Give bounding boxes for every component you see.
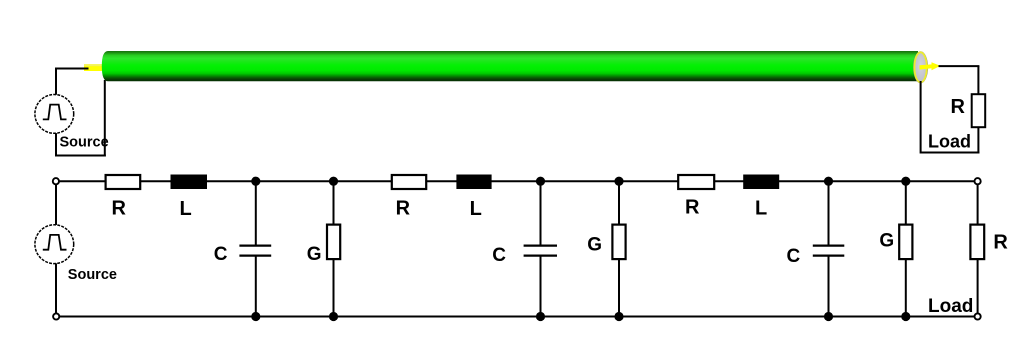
terminal: bottom-right open node — [975, 313, 981, 319]
inductor L2 (solid) — [456, 175, 491, 190]
svg-text:C: C — [787, 246, 801, 267]
node: C1 bottom junction — [251, 312, 260, 321]
wire: source top vertical — [55, 69, 57, 96]
svg-text:R: R — [951, 96, 966, 118]
wire: source branch lower vertical (bottom circuit) — [55, 263, 57, 313]
wire: load branch lower vertical (bottom circuit) — [977, 259, 979, 313]
svg-text:L: L — [755, 198, 767, 220]
svg-text:C: C — [214, 244, 228, 265]
terminal: bottom-left open node — [53, 313, 59, 319]
inductor L3 (solid) — [743, 175, 779, 190]
wire: G3 lower lead — [905, 259, 907, 317]
source V1 (top): pulse waveform — [43, 105, 67, 120]
wire: G1 lower lead — [333, 259, 335, 317]
wire: source bottom vertical — [55, 133, 57, 157]
transmission line: far-end face (gray ellipse with yellow rim) — [914, 52, 928, 83]
transmission line: inner conductor stub (yellow) — [84, 64, 104, 71]
node: G1 bottom junction — [329, 312, 338, 321]
svg-text:L: L — [180, 198, 192, 220]
wire: source branch upper vertical (bottom circuit) — [55, 185, 57, 227]
wire: C3 upper lead — [828, 181, 830, 245]
wire: G3 upper lead — [905, 181, 907, 226]
wire: source top horizontal to line input — [55, 68, 89, 70]
wire: C2 upper lead — [540, 181, 542, 245]
wire: G2 lower lead — [618, 259, 620, 317]
node: G1 top junction — [329, 177, 338, 186]
node: C2 bottom junction — [536, 312, 545, 321]
wire: C1 lower lead — [255, 256, 257, 317]
svg-text:C: C — [492, 245, 506, 266]
wire: C1 upper lead — [255, 181, 257, 245]
capacitor C2 plates — [524, 245, 557, 247]
terminal: top-right open node — [975, 178, 981, 184]
resistor R3 (series) — [678, 175, 714, 189]
wire: C3 lower lead — [828, 256, 830, 317]
svg-text:Source: Source — [60, 134, 109, 150]
conductance G2 (resistor box) — [612, 225, 625, 260]
inductor L1 (solid) — [171, 175, 208, 190]
node: C3 top junction — [824, 177, 833, 186]
transmission line: coax cable body (green cylinder) — [102, 51, 918, 81]
load resistor R (top) — [972, 94, 986, 127]
node: G3 top junction — [901, 177, 910, 186]
svg-text:Load: Load — [928, 296, 973, 317]
terminal: top-left open node — [53, 178, 59, 184]
node: C3 bottom junction — [824, 312, 833, 321]
svg-text:R: R — [685, 197, 700, 219]
resistor R1 (series) — [106, 175, 141, 189]
wire: load branch upper vertical (bottom circuit) — [977, 185, 979, 227]
wire: G1 upper lead — [333, 181, 335, 226]
capacitor C1 plates — [239, 245, 271, 247]
wire: shield return vertical at line input — [104, 80, 106, 157]
source V2 (bottom): circle — [35, 225, 74, 264]
svg-text:R: R — [993, 232, 1008, 254]
wire: C2 lower lead — [540, 256, 542, 317]
svg-text:L: L — [470, 198, 482, 220]
wire: bottom rail — [59, 316, 975, 318]
wire: top rail — [59, 180, 975, 182]
conductance G1 (resistor box) — [327, 225, 340, 260]
transmission line: center conductor arrow (yellow) — [920, 62, 941, 70]
svg-text:R: R — [112, 198, 127, 220]
source V2 (bottom): pulse waveform — [43, 235, 67, 250]
wire: load top horizontal (top circuit) — [939, 65, 980, 67]
wire: load bottom horizontal (top circuit) — [921, 152, 980, 154]
wire: bottom return horizontal — [55, 155, 106, 157]
wire: load right vertical (top circuit) — [977, 66, 979, 153]
svg-text:G: G — [587, 235, 602, 256]
resistor R2 (series) — [392, 175, 426, 189]
svg-text:G: G — [307, 244, 322, 265]
source V1 (top): circle — [35, 95, 74, 134]
node: G3 bottom junction — [901, 312, 910, 321]
wire: G2 upper lead — [618, 181, 620, 226]
svg-text:G: G — [879, 230, 894, 251]
load resistor R (bottom) — [970, 225, 984, 260]
capacitor C3 plates — [813, 245, 845, 247]
node: C2 top junction — [536, 177, 545, 186]
svg-text:Load: Load — [928, 131, 971, 151]
svg-text:Source: Source — [68, 267, 117, 283]
wire: load left vertical from shield (top circuit) — [920, 81, 922, 154]
node: G2 bottom junction — [614, 312, 623, 321]
node: C1 top junction — [251, 177, 260, 186]
svg-text:R: R — [396, 198, 411, 220]
conductance G3 (resistor box) — [899, 225, 912, 260]
node: G2 top junction — [614, 177, 623, 186]
